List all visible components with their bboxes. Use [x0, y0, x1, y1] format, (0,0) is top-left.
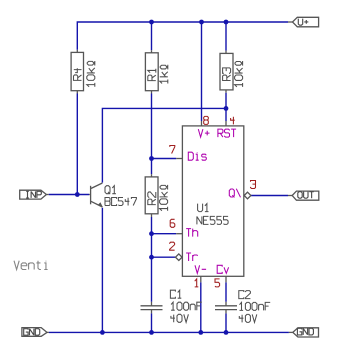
- wire R1 top: [151, 22, 153, 50]
- tag text GND left: [24, 329, 40, 336]
- connector GND right: [289, 328, 319, 337]
- value R1 1k: [160, 65, 168, 84]
- label R4: [74, 68, 82, 80]
- resistor R3 body: [220, 51, 233, 93]
- value R2 10k: [160, 185, 168, 211]
- value 100nF C2: [240, 302, 271, 310]
- label C1: [170, 290, 181, 298]
- pin name Dis: [188, 152, 206, 160]
- pin name Cv: [217, 265, 228, 273]
- capacitor C1 body: [141, 302, 163, 314]
- wire pin2 branch: [152, 256, 176, 258]
- label R2: [148, 192, 156, 205]
- connector GND left: [22, 328, 49, 337]
- node gnd emitter: [100, 330, 105, 335]
- tag text OUT: [298, 192, 314, 199]
- resistor R4 body: [71, 50, 83, 94]
- wire R2 bottom to C1: [151, 217, 153, 302]
- value 40V C2: [239, 314, 256, 322]
- wire collector to RST node: [102, 108, 226, 182]
- wire pin1 to GND rail: [200, 282, 202, 332]
- node RST: [224, 106, 229, 111]
- pin number 4: [231, 117, 235, 125]
- node top R3: [224, 20, 229, 25]
- wire R3 bottom to RST node: [225, 93, 227, 109]
- wire RST node to pin4: [225, 108, 227, 121]
- connector U+: [288, 17, 319, 27]
- tag text GND right: [297, 328, 313, 335]
- pin name V+ RST: [198, 129, 236, 137]
- resistor R2 body: [145, 174, 158, 217]
- IC U1 NE555 body: [176, 121, 244, 282]
- label U1: [198, 204, 209, 212]
- text Venti: [14, 261, 48, 270]
- node pin6: [149, 231, 154, 236]
- wire GND rail: [49, 331, 289, 333]
- pin bubble Tr pin2: [176, 254, 183, 261]
- wire pin5 to C2: [225, 282, 227, 302]
- value R3 10k: [235, 61, 243, 87]
- pin name V-: [195, 265, 206, 273]
- connector INP: [20, 190, 49, 199]
- connector OUT: [288, 191, 319, 200]
- pin number 1: [195, 279, 199, 287]
- label BC547: [105, 198, 136, 206]
- wire pin6 branch: [152, 233, 177, 235]
- pin number 3: [251, 181, 256, 189]
- node base: [75, 192, 80, 197]
- pin name Q: [229, 189, 240, 198]
- pin number 8: [204, 116, 209, 124]
- capacitor C2 body: [215, 302, 237, 314]
- node top R1: [149, 20, 154, 25]
- node gnd C2: [224, 330, 229, 335]
- wire C2 bottom: [225, 313, 227, 332]
- transistor Q1: [89, 183, 103, 207]
- pin number 7: [170, 146, 175, 154]
- wire emitter to GND rail: [101, 208, 103, 333]
- wire INP to base: [49, 194, 89, 196]
- label C2: [239, 291, 251, 299]
- pin number 2: [170, 242, 175, 250]
- wire R1 bottom to R2 top: [151, 94, 153, 175]
- value R4 10k: [87, 61, 95, 87]
- tag text U+: [298, 19, 308, 26]
- wire pin7 branch: [152, 158, 177, 160]
- pin number 6: [170, 219, 175, 227]
- pin name Th: [186, 229, 198, 237]
- label Q1: [105, 186, 116, 194]
- pin name Tr: [186, 253, 198, 261]
- resistor R1 body: [145, 50, 158, 93]
- node top pin8: [199, 20, 204, 25]
- value 100nF C1: [171, 302, 202, 310]
- label R1: [148, 69, 156, 81]
- node gnd C1: [149, 330, 154, 335]
- wire R3 top: [225, 22, 227, 51]
- node pin7: [149, 156, 154, 161]
- label NE555: [197, 216, 228, 224]
- node gnd pin1: [198, 330, 203, 335]
- wire C1 bottom: [151, 313, 153, 332]
- pin number 5: [215, 279, 220, 287]
- node pin2: [149, 255, 154, 260]
- wire R4 bottom to base node: [76, 94, 78, 195]
- wire pin3 to OUT: [251, 195, 288, 197]
- tag text INP: [26, 191, 41, 198]
- value 40V C1: [171, 314, 189, 322]
- wire top rail to U+: [77, 22, 288, 50]
- pin bubble Q pin3: [244, 192, 251, 199]
- label R3: [223, 68, 231, 81]
- wire pin8 vertical: [201, 22, 203, 121]
